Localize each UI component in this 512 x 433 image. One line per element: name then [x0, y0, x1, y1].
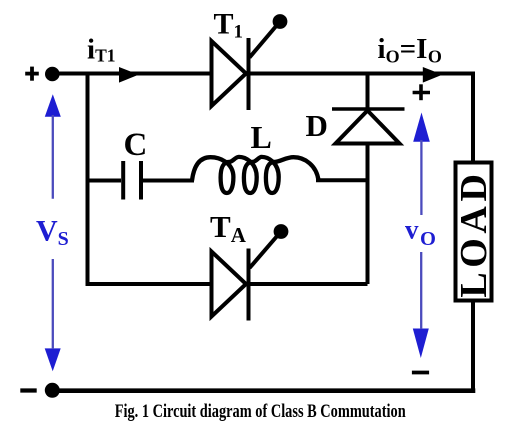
svg-text:C: C [124, 127, 148, 163]
svg-text:Fig. 1 Circuit diagram of Clas: Fig. 1 Circuit diagram of Class B Commut… [115, 401, 406, 422]
svg-text:L: L [251, 119, 272, 155]
svg-text:D: D [306, 108, 328, 143]
